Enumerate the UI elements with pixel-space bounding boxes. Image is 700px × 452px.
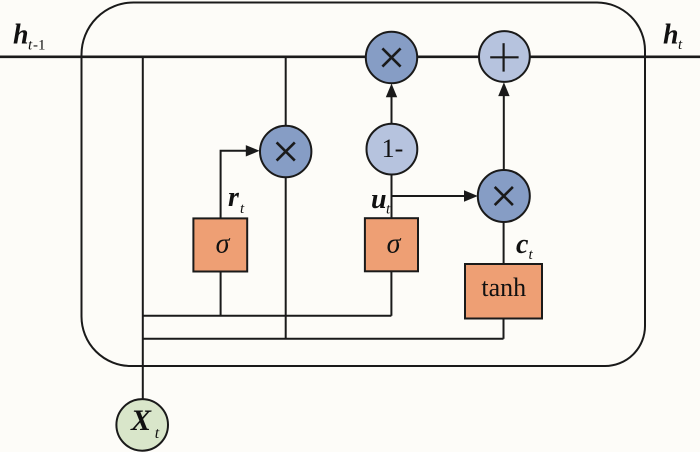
svg-text:h: h xyxy=(663,20,679,51)
label h t-1 xyxy=(13,20,46,54)
sigma r gate box xyxy=(193,218,247,271)
svg-text:c: c xyxy=(516,229,529,260)
label c t xyxy=(516,229,534,263)
wire input column x143 from h line to Xt xyxy=(142,57,144,399)
label u t xyxy=(371,184,391,217)
svg-text:h: h xyxy=(13,20,29,51)
label h t xyxy=(663,20,683,54)
svg-text:u: u xyxy=(371,184,387,215)
svg-text:X: X xyxy=(130,404,152,437)
svg-text:σ: σ xyxy=(387,229,402,260)
wire candidate multiply to tanh top xyxy=(503,220,505,265)
GRU cell boundary rounded rect xyxy=(82,3,646,367)
svg-text:t: t xyxy=(678,37,683,53)
wire candidate input bus y339 xyxy=(143,338,504,340)
wire sigma u bottom pin xyxy=(390,271,392,316)
wire sigma r bottom pin xyxy=(220,272,222,316)
svg-text:tanh: tanh xyxy=(481,273,526,302)
sigma u gate box xyxy=(365,218,418,271)
label r t xyxy=(228,182,245,217)
candidate multiply circle x3 xyxy=(478,170,530,222)
wire sigma u output to 1- circle xyxy=(391,175,393,219)
svg-text:t: t xyxy=(529,247,534,263)
svg-text:1-: 1- xyxy=(382,134,404,163)
wire h recurrent line xyxy=(0,55,700,58)
wire gate input bus y316 xyxy=(143,315,392,317)
arrow 1- output to update multiply xyxy=(386,84,397,124)
wire tanh bottom pin xyxy=(503,319,505,339)
add circle xyxy=(479,31,530,82)
update multiply circle x2 xyxy=(366,32,417,83)
svg-text:t: t xyxy=(386,201,391,217)
1- circle xyxy=(367,124,418,175)
arrow sigma r output to reset multiply xyxy=(221,145,260,218)
svg-text:-1: -1 xyxy=(33,38,46,54)
svg-text:σ: σ xyxy=(216,229,231,260)
svg-text:t: t xyxy=(155,425,160,442)
svg-text:t: t xyxy=(240,201,245,217)
arrow u branch to candidate multiply xyxy=(392,190,478,201)
svg-text:r: r xyxy=(228,182,240,213)
wire reset column x286 from h line to bottom bus xyxy=(285,57,287,339)
Xt input circle xyxy=(116,399,168,451)
reset multiply circle x1 xyxy=(260,126,311,177)
tanh box xyxy=(465,264,542,319)
arrow candidate multiply to add xyxy=(498,82,509,170)
